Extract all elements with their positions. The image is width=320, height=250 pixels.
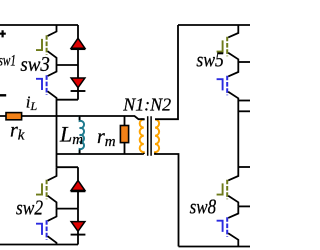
svg-text:sw8: sw8 [190, 195, 217, 219]
transistor sw8 upper (olive) emitter lead [228, 196, 238, 207]
transistor sw5 lower (blue) gate [217, 79, 223, 90]
diode D-sw2 upper cathode bar [71, 190, 86, 192]
diode D-sw3 lower triangle [71, 78, 85, 88]
svg-text:Lm: Lm [59, 122, 83, 149]
transistor sw2 upper (olive) emitter lead [48, 196, 57, 209]
diode D-sw2 upper triangle [71, 180, 85, 190]
transistor sw8 lower (blue) emitter lead [228, 233, 238, 246]
transistor sw3 upper (olive) collector lead [48, 25, 57, 36]
transistor sw2 lower (blue) gate [36, 224, 42, 235]
svg-text:rk: rk [10, 120, 25, 144]
inductor Lm bottom lead [79, 150, 81, 154]
transistor sw5 upper (olive) emitter lead [228, 53, 238, 62]
transistor sw2 upper (olive) collector lead [48, 167, 57, 180]
transistor sw3 upper (olive) emitter lead [48, 51, 57, 65]
diode D-sw3 upper triangle [71, 38, 85, 48]
svg-text:rm: rm [97, 126, 116, 150]
transistor sw8 upper (olive) body bar [226, 180, 228, 200]
wire right midpoint bus stub [238, 110, 250, 112]
node - terminal mark [0, 94, 6, 96]
diode D-sw3 upper cathode bar [71, 48, 86, 50]
transformer primary top lead [141, 119, 144, 120]
svg-text:N1:N2: N1:N2 [122, 95, 171, 115]
wire sw5 bottom junction stub [238, 100, 250, 102]
transistor sw2 lower (blue) collector lead [48, 209, 57, 221]
inductor Lm [80, 116, 84, 154]
transistor sw5 upper (olive) gate [217, 40, 223, 51]
wire left leg midpoint vertical [56, 100, 58, 168]
transistor sw8 upper (olive) collector lead [228, 167, 238, 180]
wire iL bus [0, 116, 144, 119]
transistor sw5 lower (blue) body bar [226, 76, 228, 96]
transistor sw8 upper (olive) gate [217, 183, 223, 194]
diode D-sw2 lower triangle [71, 222, 85, 232]
transistor sw3 upper (olive) gate [36, 39, 42, 50]
transistor sw8 lower (blue) gate [217, 221, 223, 232]
svg-text:iL: iL [26, 93, 38, 114]
transistor sw2 lower (blue) body bar [46, 220, 48, 240]
wire sw2 mid junction [57, 208, 79, 210]
transformer secondary winding N2 [155, 119, 159, 154]
svg-text:sw3: sw3 [20, 52, 50, 76]
diode D-sw2 lower cathode wire [77, 231, 79, 244]
resistor rm leads [124, 116, 126, 154]
diode D-sw3 lower anode wire [77, 65, 79, 78]
svg-text:sw1: sw1 [0, 52, 16, 69]
inductor Lm top lead [79, 116, 81, 120]
wire top rail right [178, 24, 250, 26]
wire sw2 top junction [57, 166, 79, 168]
transistor sw5 upper (olive) body bar [226, 37, 228, 57]
transistor sw8 lower (blue) body bar [226, 217, 228, 237]
transistor sw5 lower (blue) collector lead [228, 62, 238, 76]
svg-text:sw5: sw5 [196, 48, 224, 72]
transistor sw2 upper (olive) body bar [46, 180, 48, 200]
transistor sw3 upper (olive) body bar [46, 35, 48, 55]
wire sw3 mid junction [57, 64, 79, 66]
resistor rm [120, 126, 128, 143]
wire sw5 mid junction stub [238, 61, 250, 63]
diode D-sw3 upper cathode wire [77, 49, 79, 65]
transformer core [148, 116, 151, 156]
wire primary bottom return [57, 153, 144, 155]
diode D-sw2 upper cathode wire [77, 191, 79, 208]
transistor sw3 lower (blue) collector lead [48, 65, 57, 76]
wire secondary top to right rail [155, 25, 178, 119]
transistor sw2 lower (blue) emitter lead [48, 236, 57, 244]
resistor rk [6, 113, 22, 120]
wire sw3 bottom junction [57, 99, 79, 101]
transistor sw5 lower (blue) emitter lead [228, 92, 238, 101]
wire top rail left (DC+ bus) [0, 24, 78, 26]
transistor sw8 lower (blue) collector lead [228, 206, 238, 218]
wire bottom rail left (DC- bus) [0, 244, 78, 246]
diode D-sw2 upper anode wire [77, 167, 79, 180]
wire bottom rail right [179, 246, 251, 248]
diode D-sw3 lower cathode wire [77, 88, 79, 100]
wire right leg midpoint vertical [237, 101, 239, 168]
svg-text:sw2: sw2 [16, 196, 43, 220]
diode D-sw2 lower cathode bar [71, 234, 86, 236]
transistor sw3 lower (blue) body bar [46, 75, 48, 95]
transistor sw3 lower (blue) gate [36, 79, 42, 90]
wire sw8 mid junction stub [238, 205, 250, 207]
transformer primary bottom lead [143, 153, 145, 154]
node + terminal mark [0, 30, 6, 37]
wire secondary bottom to right bottom rail [155, 153, 179, 247]
diode D-sw3 lower cathode bar [71, 90, 86, 92]
wire sw8 top junction stub [238, 166, 250, 168]
diode D-sw2 lower anode wire [77, 209, 79, 222]
transistor sw2 upper (olive) gate [36, 183, 42, 194]
transistor sw5 upper (olive) collector lead [228, 25, 238, 37]
diode D-sw3 upper anode wire [77, 25, 79, 38]
transistor sw3 lower (blue) emitter lead [48, 91, 57, 99]
transformer primary winding N1 [140, 119, 144, 154]
